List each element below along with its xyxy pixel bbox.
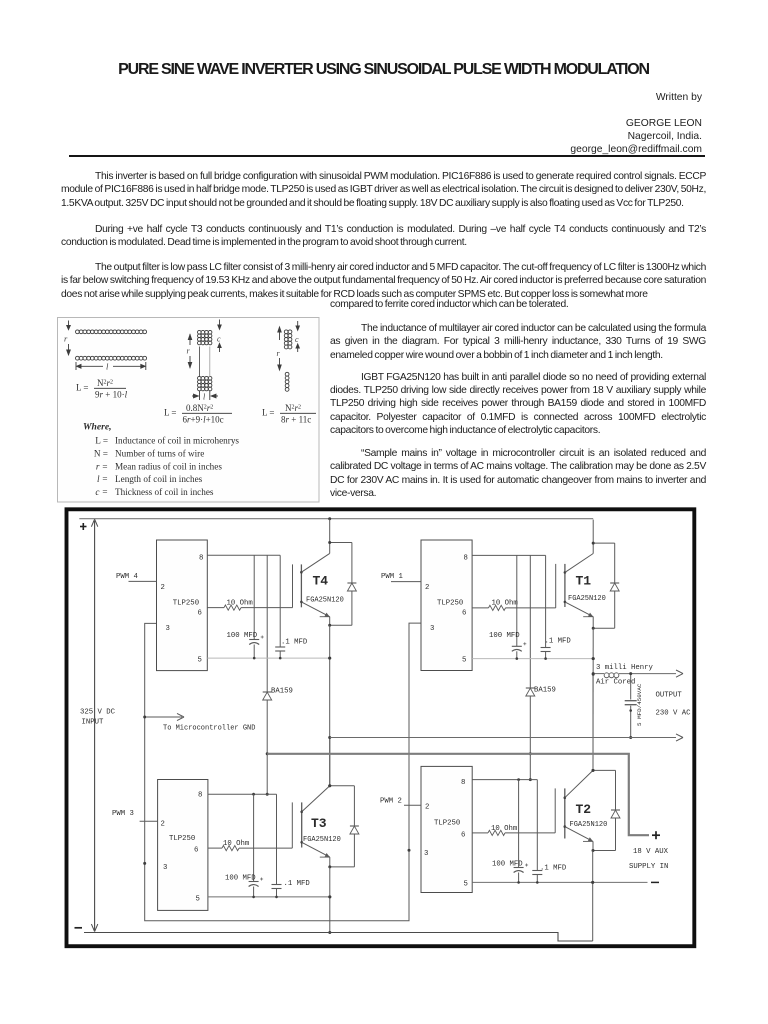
svg-text:10 Ohm: 10 Ohm: [227, 600, 253, 608]
svg-text:FGA25N120: FGA25N120: [570, 821, 608, 829]
wire PWM 3 input to pin 2: [140, 820, 158, 822]
junctions at T2 collector/emitter: [592, 769, 595, 852]
junction BA159 column to aux rail: [529, 752, 532, 781]
formula 1: L = N^2 r^2 / (9r + 10 l): [76, 378, 128, 400]
svg-text:6: 6: [461, 832, 465, 840]
svg-text:Thickness of coil in inches: Thickness of coil in inches: [115, 487, 214, 497]
svg-text:5: 5: [196, 896, 200, 904]
svg-text:5 MFD/450VAC: 5 MFD/450VAC: [636, 683, 643, 726]
svg-text:r =: r =: [96, 461, 108, 471]
wire T3 emitter to bottom rail: [328, 867, 331, 934]
svg-text:PWM 4: PWM 4: [116, 573, 139, 581]
top +325V rail wire: [79, 518, 593, 520]
svg-text:T4: T4: [313, 574, 329, 589]
label T2: [570, 802, 608, 829]
svg-text:8: 8: [199, 555, 203, 563]
wire pin 8 supply of T3: [208, 793, 277, 796]
capacitor C-T2a 100 MFD: [492, 780, 528, 883]
coil 1 dimension r: [64, 321, 70, 355]
svg-text:INPUT: INPUT: [82, 719, 105, 727]
junctions at T4 collector/emitter: [328, 541, 331, 627]
svg-text:6: 6: [198, 610, 202, 618]
capacitor C-T4a 100 MFD: [227, 555, 264, 658]
schematic outer frame: [67, 509, 695, 946]
paragraph 6: [330, 447, 706, 501]
svg-text:10 Ohm: 10 Ohm: [492, 600, 518, 608]
svg-text:8: 8: [198, 792, 202, 800]
header rule: [69, 155, 705, 157]
resistor R-T1 10 Ohm gate drive: [472, 600, 556, 611]
wire PWM 4 input to pin 2: [129, 580, 157, 582]
transistor Q3 T3 IGBT FGA25N120: [292, 786, 330, 848]
svg-text:FGA25N120: FGA25N120: [568, 595, 606, 603]
svg-text:Where,: Where,: [83, 422, 112, 433]
svg-text:PWM 1: PWM 1: [381, 573, 404, 581]
paragraph 5: [330, 371, 706, 438]
minus terminal label: [75, 927, 83, 929]
svg-text:2: 2: [425, 584, 429, 592]
wire pin 5 return of T2: [472, 881, 647, 884]
inductor L1 3 milli Henry air cored: [593, 664, 683, 687]
anti-parallel diode of T3: [330, 786, 359, 867]
svg-text:BA159: BA159: [271, 688, 293, 696]
aux supply - terminal: [651, 881, 659, 883]
resistor R-T2 10 Ohm gate drive: [472, 825, 555, 836]
svg-text:Length of coil in inches: Length of coil in inches: [115, 474, 203, 484]
svg-text:5: 5: [198, 657, 202, 665]
capacitor C-T3b .1 MFD: [272, 794, 311, 897]
transistor Q2 T2 IGBT FGA25N120: [555, 770, 593, 838]
svg-text:5: 5: [462, 657, 466, 665]
svg-text:.1 MFD: .1 MFD: [281, 639, 308, 647]
legend: where clause: [83, 422, 239, 498]
resistor R-T3 10 Ohm gate drive: [208, 840, 292, 851]
svg-text:100 MFD: 100 MFD: [225, 875, 256, 883]
net label 18 V AUX SUPPLY IN: [629, 848, 669, 871]
svg-text:2: 2: [425, 804, 429, 812]
T3 collector wire: [329, 738, 331, 786]
coil 2 dimensions r, c, l: [187, 320, 222, 402]
svg-text:5: 5: [464, 881, 468, 889]
T3 emitter wire with arrow: [302, 842, 330, 867]
svg-text:TLP250: TLP250: [437, 600, 463, 608]
wire: To Microcontroller GND arrow: [146, 713, 184, 720]
svg-text:To Microcontroller GND: To Microcontroller GND: [163, 725, 255, 733]
capacitor C-T1b .1 MFD: [541, 555, 572, 658]
svg-text:10 Ohm: 10 Ohm: [491, 825, 517, 833]
T2 emitter wire with arrow: [565, 827, 593, 851]
label T3: [303, 816, 341, 844]
T4 emitter wire with arrow: [301, 602, 329, 625]
wire PWM 2 input to pin 2: [404, 804, 421, 806]
svg-text:100 MFD: 100 MFD: [489, 632, 520, 640]
junction: T4 collector on top rail: [328, 517, 331, 520]
circuit schematic: full-bridge inverter: [60, 503, 705, 955]
svg-text:6: 6: [462, 610, 466, 618]
formula 3: L = N^2 r^2 / (8r + 11c): [262, 403, 316, 425]
svg-text:230 V AC: 230 V AC: [656, 710, 692, 718]
figure: air-core inductor formulas: [57, 317, 320, 503]
wire T4 emitter to T3 collector (bridge leg A): [328, 625, 331, 787]
aux 18V supply rail (thick): [267, 754, 649, 835]
junction BA159 column to aux rail: [266, 752, 269, 795]
pin numbers of T4 driver: [161, 555, 204, 665]
label T4: [306, 574, 344, 605]
anti-parallel diode of T1: [593, 543, 619, 628]
svg-text:3: 3: [163, 864, 167, 872]
svg-text:TLP250: TLP250: [434, 820, 460, 828]
transistor Q4 T4 IGBT FGA25N120: [293, 553, 330, 607]
output neutral wire from bridge leg A: [330, 734, 683, 741]
paragraph 3: [61, 261, 706, 301]
svg-text:PWM 2: PWM 2: [380, 798, 402, 806]
T2 collector wire: [592, 674, 594, 770]
bottom -325V rail wire: [84, 933, 593, 942]
wire pin 5 return of T3: [208, 895, 331, 898]
capacitor C-out 5MFD/450VAC: [625, 672, 643, 739]
paragraph 2: [61, 223, 706, 250]
svg-text:c: c: [295, 335, 299, 344]
325V DC input rail (left): [91, 519, 97, 931]
wire T1 emitter to T2 collector (bridge leg B): [592, 628, 595, 772]
svg-text:6: 6: [194, 847, 198, 855]
svg-text:325 V DC: 325 V DC: [80, 709, 116, 717]
anti-parallel diode of T2: [593, 770, 620, 850]
coil 3 dimensions c, r: [277, 321, 300, 370]
wire pin 5 return of T4: [207, 657, 331, 660]
transistor Q1 T1 IGBT FGA25N120: [556, 554, 594, 608]
opto-driver U-T3 TLP250 box: [158, 780, 208, 911]
svg-text:SUPPLY IN: SUPPLY IN: [629, 863, 668, 871]
wire pin 8 supply of T1: [472, 554, 545, 556]
svg-text:L =: L =: [164, 408, 177, 418]
svg-text:3: 3: [166, 625, 170, 633]
capacitor C-T3a 100 MFD: [225, 794, 263, 897]
svg-text:L =: L =: [262, 408, 275, 418]
net label PWM 1: [381, 573, 404, 581]
wire pin 8 supply of T4: [207, 554, 280, 556]
svg-text:8: 8: [464, 555, 468, 563]
diode BA159 feeding T4 driver: [263, 555, 293, 794]
svg-text:18 V AUX: 18 V AUX: [633, 848, 669, 856]
junction: T2 pin3 tap: [408, 849, 411, 852]
svg-text:l =: l =: [97, 474, 108, 484]
svg-text:T1: T1: [576, 574, 592, 589]
net label To Microcontroller GND: [163, 725, 255, 733]
svg-text:TLP250: TLP250: [173, 600, 199, 608]
pin numbers of T3 driver: [161, 792, 203, 904]
title: [61, 61, 706, 79]
svg-text:T3: T3: [311, 816, 327, 831]
formula 2: L = 0.8 N^2 r^2 / (6r + 9 l + 10c): [164, 403, 232, 425]
net label OUTPUT 230 V AC: [656, 692, 692, 718]
pin numbers of T1 driver: [425, 555, 468, 665]
svg-text:3: 3: [424, 850, 428, 858]
svg-text:2: 2: [161, 821, 165, 829]
opto-driver U-T4 TLP250 box: [157, 540, 208, 671]
net label PWM 3: [112, 810, 134, 818]
aux supply + terminal: [652, 831, 660, 839]
capacitor C-T1a 100 MFD: [489, 555, 526, 658]
T4 collector wire: [329, 519, 331, 554]
coil 3: long multilayer coil sketch: [284, 330, 292, 391]
resistor R-T4 10 Ohm gate drive: [207, 600, 292, 611]
wire pin 5 return of T1: [472, 657, 595, 660]
wire PWM 1 input to pin 2: [391, 581, 421, 583]
svg-text:TLP250: TLP250: [169, 835, 195, 843]
capacitor C-T4b .1 MFD: [275, 555, 308, 658]
net label PWM 2: [380, 798, 402, 806]
svg-text:T2: T2: [576, 802, 592, 817]
svg-text:.1 MFD: .1 MFD: [545, 638, 572, 646]
svg-text:c: c: [217, 334, 221, 343]
diode BA159 feeding T1 driver: [526, 555, 556, 779]
svg-text:100 MFD: 100 MFD: [227, 632, 258, 640]
svg-text:L =: L =: [95, 436, 108, 446]
T1 emitter wire with arrow: [565, 602, 593, 628]
svg-text:PWM 3: PWM 3: [112, 810, 134, 818]
wire T2 emitter down to bottom rail: [591, 851, 594, 942]
junctions at T1 collector/emitter: [592, 542, 595, 630]
junction: gnd tap: [143, 716, 146, 719]
opto-driver U-T1 TLP250 box: [421, 540, 472, 671]
plus terminal label: [80, 523, 87, 530]
svg-text:10 Ohm: 10 Ohm: [223, 840, 249, 848]
svg-text:100 MFD: 100 MFD: [492, 861, 523, 869]
paragraph 4: [330, 322, 706, 362]
byline: [400, 91, 702, 157]
svg-text:L =: L =: [76, 383, 89, 393]
svg-text:Air Cored: Air Cored: [596, 679, 635, 687]
svg-text:3: 3: [430, 625, 434, 633]
svg-text:Number of turns of wire: Number of turns of wire: [115, 448, 204, 458]
pin numbers of T2 driver: [424, 779, 468, 889]
svg-text:0.8N2r2: 0.8N2r2: [186, 403, 213, 413]
svg-text:.1 MFD: .1 MFD: [540, 865, 567, 873]
junction: T3 pin3 tap: [143, 862, 146, 865]
svg-text:OUTPUT: OUTPUT: [656, 692, 683, 700]
svg-text:N =: N =: [94, 448, 108, 458]
microcontroller ground bus wire: [145, 623, 421, 921]
svg-text:2: 2: [161, 584, 165, 592]
coil 2: multilayer coil cross-section: [198, 330, 212, 390]
net label 325 V DC INPUT: [80, 709, 116, 727]
svg-text:FGA25N120: FGA25N120: [306, 597, 344, 605]
svg-text:FGA25N120: FGA25N120: [303, 836, 341, 844]
junction T1 emitter to output: [592, 672, 595, 675]
wire pin 8 supply of T2: [472, 778, 537, 781]
svg-text:Mean radius of coil in inches: Mean radius of coil in inches: [115, 461, 222, 471]
label T1: [568, 574, 606, 604]
svg-text:8r + 11c: 8r + 11c: [281, 415, 311, 425]
net label PWM 4: [116, 573, 139, 581]
svg-text:9r + 10·l: 9r + 10·l: [95, 390, 128, 400]
svg-text:6r+9·l+10c: 6r+9·l+10c: [183, 415, 224, 425]
opto-driver U-T2 TLP250 box: [421, 766, 472, 892]
anti-parallel diode of T4: [330, 543, 357, 626]
paragraph 1: [61, 170, 706, 210]
capacitor C-T2b .1 MFD: [532, 780, 567, 883]
junctions at T3 collector/emitter: [328, 784, 331, 868]
svg-text:BA159: BA159: [534, 687, 556, 695]
T1 collector wire: [592, 520, 594, 554]
coil 1 dimension l: [76, 362, 146, 372]
svg-text:Inductance of coil in microhen: Inductance of coil in microhenrys: [115, 436, 239, 446]
coil 1: single-layer air coil sketch: [76, 330, 147, 360]
svg-text:8: 8: [461, 779, 465, 787]
svg-text:3 milli Henry: 3 milli Henry: [596, 664, 654, 672]
svg-text:c =: c =: [95, 487, 108, 497]
svg-text:.1 MFD: .1 MFD: [284, 880, 311, 888]
